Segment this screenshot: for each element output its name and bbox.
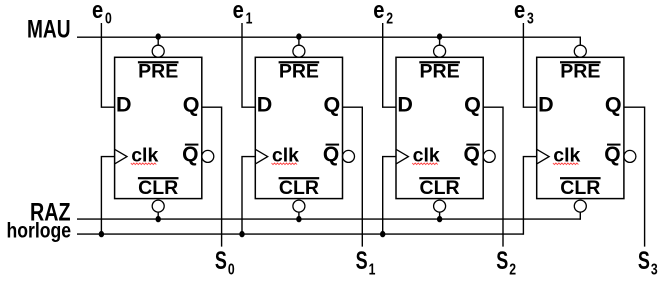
U2 pin label CLR (overline) — [279, 177, 320, 199]
svg-text:D: D — [397, 93, 413, 117]
red spellcheck squiggle under clk U1 — [131, 163, 157, 165]
junction dot MAU/PRE U1 — [156, 33, 161, 39]
svg-text:2: 2 — [509, 262, 516, 279]
flip-flop U2 CLR bubble — [293, 200, 305, 212]
svg-text:Q: Q — [605, 93, 622, 117]
svg-text:D: D — [116, 93, 132, 117]
U3 Qbar bubble (unconnected) — [483, 150, 495, 162]
svg-text:CLR: CLR — [138, 177, 178, 199]
svg-text:D: D — [538, 93, 554, 117]
wire MAU stem to PRE bubble U2 — [298, 37, 300, 45]
U4 Qbar bubble (unconnected) — [624, 150, 636, 162]
U1 pin label Q — [183, 93, 200, 117]
node S1 output label — [356, 247, 376, 279]
flip-flop U3 CLR bubble — [434, 200, 446, 212]
flip-flop U1 body — [115, 57, 202, 198]
wire e0 to D of U1 — [101, 23, 114, 107]
svg-text:Q: Q — [464, 143, 480, 166]
flip-flop U3 PRE bubble — [434, 45, 446, 57]
wire e3 to D of U4 — [523, 23, 536, 107]
wire CLR bubble stem to RAZ U1 — [157, 212, 159, 219]
svg-text:S: S — [215, 247, 227, 275]
svg-text:2: 2 — [386, 11, 393, 28]
junction dot horloge/clk U2 — [239, 231, 244, 237]
junction dot RAZ/CLR U1 — [156, 216, 161, 222]
wire horloge rail — [77, 233, 523, 235]
wire e1 to D of U2 — [242, 23, 255, 107]
svg-text:1: 1 — [369, 262, 376, 279]
wire MAU rail — [77, 36, 580, 38]
U1 pin label CLR (overline) — [138, 177, 179, 199]
svg-text:horloge: horloge — [7, 220, 72, 243]
svg-text:e: e — [92, 0, 103, 24]
svg-text:Q: Q — [323, 143, 339, 166]
junction dot horloge/clk U3 — [380, 231, 385, 237]
U1 clk edge triangle — [115, 149, 127, 164]
node e0 input label — [92, 0, 112, 28]
red spellcheck squiggle under clk U4 — [553, 163, 579, 165]
U3 pin label CLR (overline) — [419, 177, 460, 199]
node S0 output label — [215, 247, 235, 279]
svg-text:CLR: CLR — [420, 177, 460, 199]
U2 pin label Q — [323, 93, 340, 117]
svg-text:S: S — [356, 247, 368, 275]
svg-text:0: 0 — [105, 11, 112, 28]
wire Q of U1 down to S0 — [202, 107, 222, 246]
wire Q of U3 down to S2 — [483, 107, 503, 246]
U4 pin label clk — [553, 144, 580, 166]
node e2 input label — [373, 0, 393, 28]
U3 pin label Q — [464, 93, 481, 117]
wire horloge feed to clk U3 — [383, 157, 396, 235]
U3 pin label clk — [413, 144, 440, 166]
svg-text:PRE: PRE — [420, 61, 460, 83]
svg-text:3: 3 — [651, 262, 658, 279]
U4 pin label D — [538, 93, 554, 117]
flip-flop U4 PRE bubble — [574, 45, 586, 57]
net label RAZ — [30, 199, 71, 227]
flip-flop U1 PRE bubble — [152, 45, 164, 57]
U1 pin label PRE (overline) — [138, 61, 179, 83]
svg-text:3: 3 — [527, 11, 534, 28]
U2 pin label D — [257, 93, 273, 117]
U3 pin label Qbar (overline) — [464, 143, 480, 166]
svg-text:e: e — [373, 0, 384, 24]
flip-flop U3 body — [396, 57, 483, 198]
svg-text:MAU: MAU — [27, 16, 71, 44]
flip-flop U4 CLR bubble — [574, 200, 586, 212]
U2 pin label Qbar (overline) — [323, 143, 339, 166]
wire CLR bubble stem to RAZ U3 — [439, 212, 441, 219]
svg-text:1: 1 — [246, 11, 253, 28]
U4 pin label Q — [605, 93, 622, 117]
node S3 output label — [638, 247, 658, 279]
svg-text:S: S — [496, 247, 508, 275]
net label MAU — [27, 16, 71, 44]
U3 pin label PRE (overline) — [419, 61, 460, 83]
flip-flop U1 CLR bubble — [152, 200, 164, 212]
svg-text:Q: Q — [604, 143, 620, 166]
svg-text:Q: Q — [323, 93, 340, 117]
wire MAU rail bend down to PRE bubble U4 — [579, 37, 581, 46]
junction dot MAU/PRE U3 — [437, 33, 442, 39]
flip-flop U2 PRE bubble — [293, 45, 305, 57]
net label horloge — [7, 220, 72, 243]
red spellcheck squiggle under clk U2 — [272, 163, 298, 165]
junction dot RAZ/CLR U2 — [296, 216, 301, 222]
U2 pin label PRE (overline) — [279, 61, 320, 83]
junction dot RAZ/CLR U3 — [437, 216, 442, 222]
U4 pin label CLR (overline) — [560, 177, 601, 199]
svg-text:D: D — [257, 93, 273, 117]
wire MAU stem to PRE bubble U1 — [157, 37, 159, 45]
wire Q of U4 down to S3 — [624, 107, 645, 246]
wire MAU stem to PRE bubble U3 — [439, 37, 441, 45]
svg-text:PRE: PRE — [138, 61, 178, 83]
U2 clk edge triangle — [255, 149, 267, 164]
svg-text:Q: Q — [182, 143, 198, 166]
svg-text:S: S — [638, 247, 650, 275]
wire CLR bubble stem to RAZ U2 — [298, 212, 300, 219]
svg-text:e: e — [514, 0, 525, 24]
U1 pin label D — [116, 93, 132, 117]
svg-text:0: 0 — [228, 262, 235, 279]
junction dot MAU/PRE U2 — [296, 33, 301, 39]
wire horloge rail bend up to clk U4 — [523, 157, 536, 235]
svg-text:PRE: PRE — [279, 61, 319, 83]
U4 pin label Qbar (overline) — [604, 143, 620, 166]
U4 pin label PRE (overline) — [560, 61, 601, 83]
svg-text:CLR: CLR — [279, 177, 319, 199]
svg-text:PRE: PRE — [560, 61, 600, 83]
wire e2 to D of U3 — [383, 23, 396, 107]
svg-text:e: e — [233, 0, 244, 24]
wire horloge feed to clk U2 — [242, 157, 255, 235]
U3 pin label D — [397, 93, 413, 117]
U4 clk edge triangle — [537, 149, 549, 164]
node e1 input label — [233, 0, 253, 28]
node S2 output label — [496, 247, 516, 279]
U1 Qbar bubble (unconnected) — [202, 150, 214, 162]
U2 pin label clk — [272, 144, 299, 166]
wire horloge feed to clk U1 — [101, 157, 114, 235]
U2 Qbar bubble (unconnected) — [343, 150, 355, 162]
U1 pin label clk — [131, 144, 158, 166]
svg-text:Q: Q — [183, 93, 200, 117]
wire Q of U2 down to S1 — [343, 107, 363, 246]
svg-text:CLR: CLR — [560, 177, 600, 199]
wire RAZ rail bend up to CLR bubble U4 — [579, 212, 581, 220]
flip-flop U4 body — [537, 57, 624, 198]
svg-text:Q: Q — [464, 93, 481, 117]
node e3 input label — [514, 0, 534, 28]
U1 pin label Qbar (overline) — [182, 143, 198, 166]
flip-flop U2 body — [255, 57, 342, 198]
junction dot horloge/clk U1 — [99, 231, 104, 237]
U3 clk edge triangle — [396, 149, 408, 164]
red spellcheck squiggle under clk U3 — [412, 163, 438, 165]
wire RAZ rail — [77, 218, 580, 220]
